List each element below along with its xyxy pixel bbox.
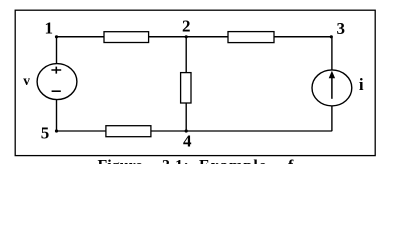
svg-text:i: i — [359, 75, 364, 94]
voltage source v circle — [37, 64, 77, 100]
node 5 junction dot — [55, 129, 58, 132]
current source i circle — [312, 70, 352, 106]
resistor R3 (node2-node4 vertical) — [181, 73, 191, 103]
svg-text:5: 5 — [41, 124, 50, 143]
svg-text:3.1:: 3.1: — [162, 158, 189, 165]
wire node3 to current source — [331, 37, 333, 71]
svg-text:Figure: Figure — [98, 158, 143, 165]
svg-text:1: 1 — [45, 18, 54, 37]
node 4 junction dot — [185, 129, 188, 132]
svg-text:Example: Example — [199, 158, 267, 165]
wire node2 to vertical resistor — [185, 37, 187, 73]
voltage source minus sign — [52, 90, 61, 92]
node 2 junction dot — [185, 35, 188, 38]
wire voltage source to node5 — [56, 100, 58, 132]
wire bottom node5-node4-current source — [57, 130, 332, 132]
svg-text:3: 3 — [337, 19, 346, 38]
current source arrow — [329, 71, 335, 99]
svg-text:f: f — [288, 158, 294, 165]
svg-text:v: v — [23, 73, 30, 88]
node 1 junction dot — [55, 35, 58, 38]
wire top node1-node3 — [57, 36, 332, 38]
svg-text:2: 2 — [182, 17, 191, 36]
wire node1 to voltage source — [56, 37, 58, 64]
svg-text:4: 4 — [183, 132, 192, 151]
resistor R2 (node2-node3) — [228, 32, 274, 43]
resistor R4 (node5-node4) — [106, 126, 151, 137]
wire vertical resistor to node4 — [185, 103, 187, 131]
voltage source plus sign — [51, 67, 61, 74]
wire current source to bottom — [331, 106, 333, 131]
resistor R1 (node1-node2) — [104, 32, 149, 43]
node 3 junction dot — [330, 35, 333, 38]
